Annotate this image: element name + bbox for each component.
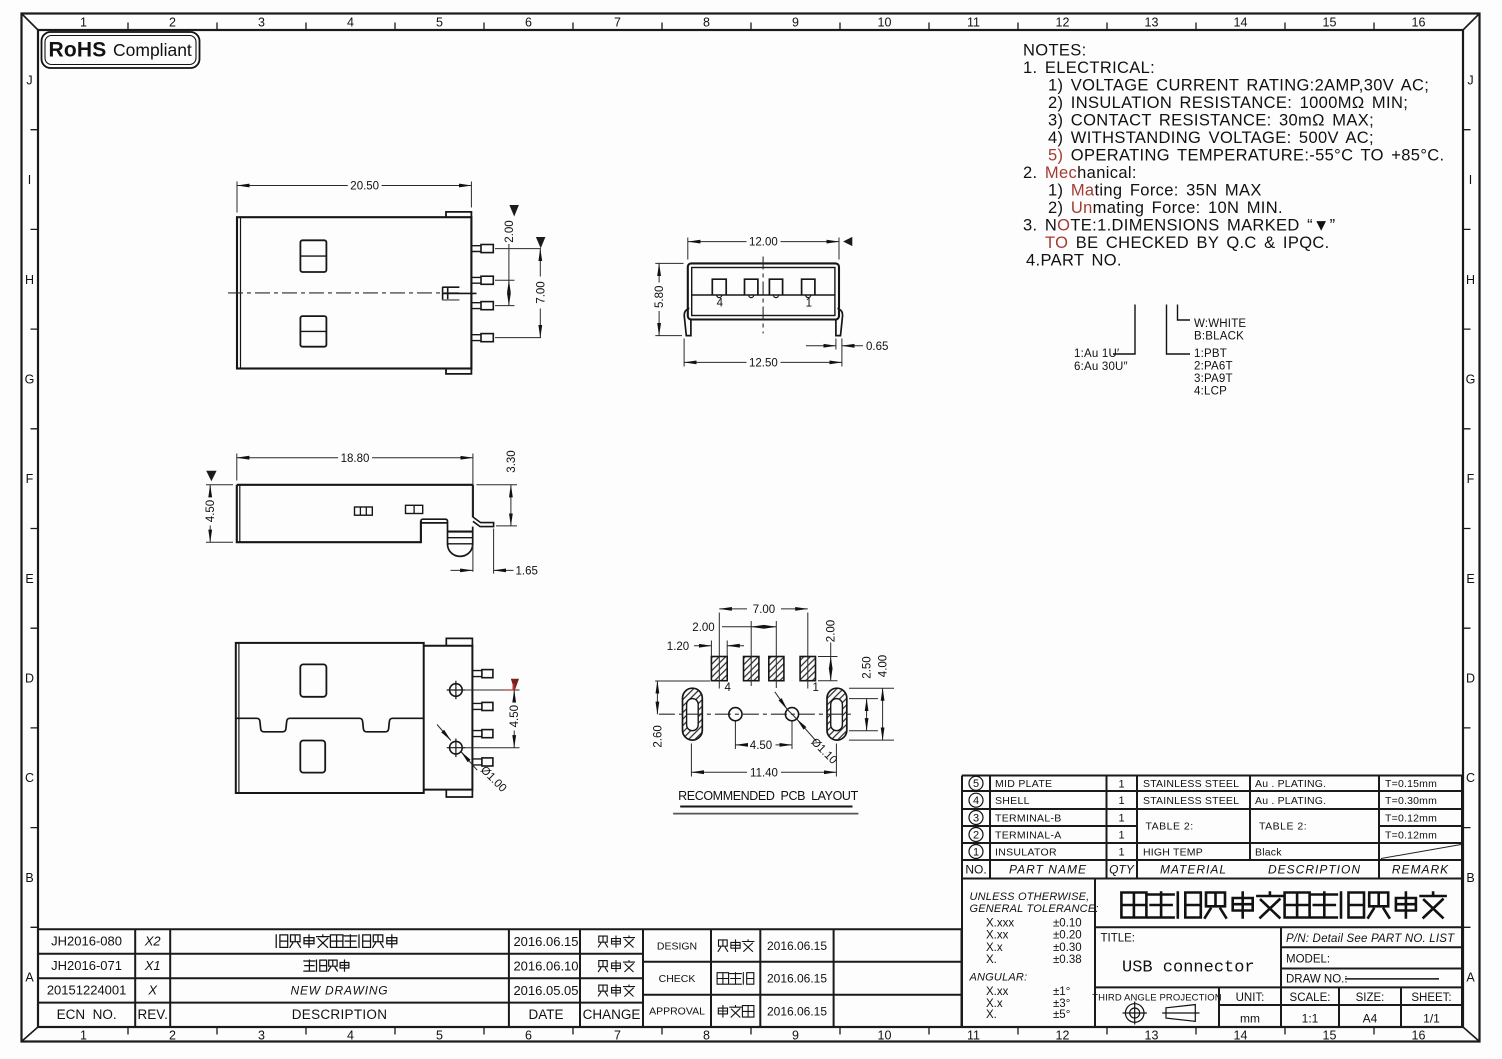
part number option tree lines — [1113, 305, 1190, 355]
revision 1 description (Chinese) (CJK rendered as strokes) — [276, 935, 397, 948]
svg-text:6: 6 — [525, 16, 532, 30]
svg-text:1.65: 1.65 — [516, 566, 538, 578]
svg-text:USB connector: USB connector — [1122, 959, 1255, 978]
svg-text:5.80: 5.80 — [654, 286, 666, 308]
svg-text:JH2016-071: JH2016-071 — [51, 958, 122, 973]
svg-text:4.50: 4.50 — [205, 500, 217, 522]
svg-text:2: 2 — [973, 829, 979, 841]
svg-text:1) Mating Force: 35N MAX: 1) Mating Force: 35N MAX — [1048, 182, 1262, 200]
front view: contact 3 — [769, 279, 782, 295]
svg-text:0.65: 0.65 — [866, 341, 888, 353]
dimension 20.50 extension lines — [237, 182, 471, 213]
dimension 4.00 (oval height) — [849, 688, 894, 740]
svg-text:TO BE CHECKED BY Q.C & IPQC.: TO BE CHECKED BY Q.C & IPQC. — [1045, 234, 1330, 252]
svg-text:8: 8 — [703, 1029, 710, 1043]
top view: bottom-right board lock tab — [446, 369, 471, 374]
svg-text:2.50: 2.50 — [862, 656, 874, 678]
front view: contact 1 — [712, 279, 726, 295]
inspection mark triangle (4.50) — [206, 471, 216, 481]
svg-text:DRAW NO.:: DRAW NO.: — [1286, 974, 1348, 986]
svg-text:6:Au 30U″: 6:Au 30U″ — [1074, 361, 1128, 373]
change signature (Chinese) (CJK rendered as strokes) — [598, 985, 634, 996]
svg-text:B: B — [25, 871, 33, 885]
front view: tongue divider line — [692, 294, 835, 296]
dimension 2.00 (pad height, right) — [818, 657, 838, 681]
svg-text:4.50: 4.50 — [509, 705, 521, 727]
svg-text:UNLESS OTHERWISE,: UNLESS OTHERWISE, — [970, 891, 1090, 903]
revision table grid — [38, 929, 643, 1027]
svg-text:1: 1 — [1118, 778, 1124, 790]
pcb layout: left oval mounting hole — [683, 688, 703, 740]
svg-text:G: G — [1466, 373, 1476, 387]
pcb layout: solder pad 3 — [769, 657, 784, 681]
svg-text:1) VOLTAGE CURRENT RATING:2AMP: 1) VOLTAGE CURRENT RATING:2AMP,30V AC; — [1048, 77, 1429, 95]
svg-text:2. Mechanical:: 2. Mechanical: — [1023, 164, 1137, 182]
top view: upper contact window — [300, 240, 326, 272]
svg-text:8: 8 — [703, 16, 710, 30]
svg-text:1.20: 1.20 — [667, 641, 689, 653]
svg-text:2: 2 — [169, 16, 176, 30]
designer name (Chinese) (CJK rendered as strokes) — [718, 940, 754, 952]
dimension 18.80 — [237, 457, 338, 459]
svg-text:3: 3 — [973, 812, 979, 824]
svg-text:9: 9 — [792, 16, 799, 30]
dimension 2.50 (hole height) — [849, 699, 878, 731]
side view: bottom ledge (folded metal) — [421, 519, 448, 523]
top view pin extension lines — [495, 249, 541, 338]
svg-text:4: 4 — [973, 795, 979, 807]
svg-text:CHANGE: CHANGE — [583, 1007, 641, 1022]
svg-text:13: 13 — [1145, 1029, 1159, 1043]
dimension 12.50 — [684, 361, 746, 363]
parts row 1: INSULATOR — [969, 845, 983, 859]
svg-text:Compliant: Compliant — [113, 40, 192, 60]
change signature (Chinese) (CJK rendered as strokes) — [598, 936, 634, 947]
svg-text:1: 1 — [80, 1029, 87, 1043]
datum triangle at 12.00 — [843, 237, 852, 246]
svg-text:CHECK: CHECK — [659, 973, 696, 985]
svg-text:2.00: 2.00 — [826, 620, 838, 642]
svg-text:3: 3 — [258, 16, 265, 30]
svg-text:±0.20: ±0.20 — [1053, 930, 1082, 942]
dimension 11.40 extension lines — [691, 744, 836, 777]
parts row 4: SHELL — [969, 793, 983, 807]
svg-text:±0.10: ±0.10 — [1053, 918, 1082, 930]
border zone ticks left/right — [31, 130, 1471, 928]
dimension 2.60 — [655, 680, 710, 682]
svg-text:15: 15 — [1323, 16, 1337, 30]
svg-text:NEW DRAWING: NEW DRAWING — [291, 984, 389, 998]
svg-text:11.40: 11.40 — [750, 767, 778, 779]
svg-text:1: 1 — [1118, 813, 1124, 825]
company name Zhejiang Hongsui Precision Electronics Co. Ltd (CJK rendered as strokes) — [1121, 893, 1445, 918]
svg-text:6: 6 — [525, 1029, 532, 1043]
bottom view: terminal pin 3 — [472, 731, 482, 737]
approver name (Chinese) (CJK rendered as strokes) — [718, 1006, 754, 1018]
svg-text:5: 5 — [436, 16, 443, 30]
svg-text:SIZE:: SIZE: — [1356, 992, 1385, 1004]
leader line Ø1.00 — [437, 725, 451, 741]
svg-text:REV.: REV. — [138, 1007, 168, 1022]
svg-text:J: J — [1467, 73, 1473, 87]
top view: terminal pin 4 — [471, 335, 481, 341]
svg-text:X: X — [147, 983, 158, 998]
dimension 1.65 — [451, 569, 473, 571]
svg-text:2016.05.05: 2016.05.05 — [513, 983, 578, 998]
dimension 4.50 extension lines — [462, 690, 519, 748]
svg-text:2:PA6T: 2:PA6T — [1194, 361, 1233, 373]
pcb layout: solder pad 4 — [711, 657, 727, 681]
pcb layout: solder pad 2 — [744, 657, 759, 681]
svg-text:2016.06.15: 2016.06.15 — [767, 1005, 827, 1019]
svg-text:APPROVAL: APPROVAL — [649, 1006, 705, 1018]
dimension 4.50 — [735, 744, 747, 746]
svg-text:3: 3 — [258, 1029, 265, 1043]
svg-text:3) CONTACT RESISTANCE: 30mΩ MA: 3) CONTACT RESISTANCE: 30mΩ MAX; — [1048, 112, 1374, 130]
red inspection arrow mark — [504, 689, 513, 691]
svg-text:STAINLESS STEEL: STAINLESS STEEL — [1143, 778, 1239, 790]
top view: top-right board lock tab — [446, 212, 471, 217]
svg-text:T=0.12mm: T=0.12mm — [1385, 829, 1437, 841]
title block grid — [1095, 879, 1462, 1028]
bottom view: top lock tab — [446, 638, 472, 645]
svg-text:STAINLESS STEEL: STAINLESS STEEL — [1143, 795, 1239, 807]
parts table header row — [965, 863, 1449, 877]
leader Ø1.10 — [775, 692, 788, 710]
side view: window detail 2 — [406, 505, 423, 513]
svg-text:X1: X1 — [144, 958, 161, 973]
svg-text:4.50: 4.50 — [750, 740, 772, 752]
svg-text:2.00: 2.00 — [692, 622, 714, 634]
svg-text:QTY: QTY — [1109, 863, 1135, 877]
top view: center line — [228, 292, 462, 294]
pcb layout: small hole right — [785, 708, 798, 721]
svg-text:16: 16 — [1412, 16, 1426, 30]
bottom view: bottom lock tab — [446, 790, 472, 797]
svg-text:JH2016-080: JH2016-080 — [51, 934, 122, 949]
bottom view: terminal pin 1 — [472, 671, 482, 677]
svg-text:DESCRIPTION: DESCRIPTION — [292, 1007, 388, 1022]
svg-text:11: 11 — [967, 1029, 980, 1043]
svg-text:2.60: 2.60 — [652, 725, 664, 747]
svg-text:20151224001: 20151224001 — [47, 983, 127, 998]
svg-text:mm: mm — [1240, 1012, 1260, 1026]
svg-text:W:WHITE: W:WHITE — [1194, 318, 1246, 330]
top view: terminal pin 1 — [471, 246, 481, 252]
svg-text:P/N: Detail See PART NO. LIST: P/N: Detail See PART NO. LIST — [1286, 933, 1455, 945]
svg-text:4) WITHSTANDING VOLTAGE: 500V: 4) WITHSTANDING VOLTAGE: 500V AC; — [1048, 129, 1374, 147]
tolerance notes — [969, 891, 1099, 983]
svg-text:ANGULAR:: ANGULAR: — [969, 971, 1028, 983]
svg-text:T=0.15mm: T=0.15mm — [1385, 778, 1437, 790]
parts row 2: TERMINAL-A — [969, 828, 983, 842]
border zone ticks top/bottom — [128, 23, 1374, 1035]
side view: window detail 1 — [355, 507, 373, 515]
svg-text:X.xx: X.xx — [986, 930, 1009, 942]
dimension 4.50 extension lines — [735, 722, 792, 750]
pcb layout: small hole left — [729, 708, 742, 721]
svg-text:MID PLATE: MID PLATE — [995, 778, 1052, 790]
border zone numbers bottom — [80, 1029, 1425, 1043]
svg-text:C: C — [25, 771, 34, 785]
svg-text:4: 4 — [347, 1029, 354, 1043]
svg-text:2: 2 — [169, 1029, 176, 1043]
svg-text:1: 1 — [813, 682, 819, 694]
svg-text:2016.06.15: 2016.06.15 — [767, 939, 827, 953]
svg-text:E: E — [25, 572, 33, 586]
svg-text:2016.06.15: 2016.06.15 — [513, 934, 578, 949]
svg-text:18.80: 18.80 — [341, 453, 370, 465]
dimension 12.00 extension lines — [688, 238, 839, 260]
svg-text:3. NOTE:1.DIMENSIONS MARKED “▼: 3. NOTE:1.DIMENSIONS MARKED “▼” — [1023, 217, 1335, 235]
svg-text:16: 16 — [1412, 1029, 1426, 1043]
revision 2 description (Chinese) (CJK rendered as strokes) — [304, 960, 349, 971]
side view: body outline — [237, 485, 473, 542]
pcb layout: pad 1 center line — [807, 613, 809, 689]
svg-text:TERMINAL-B: TERMINAL-B — [995, 812, 1062, 824]
projection symbol: target circle — [1125, 1004, 1144, 1023]
parts row 5: MID PLATE — [969, 776, 983, 790]
svg-text:±5°: ±5° — [1053, 1009, 1070, 1021]
checker name (Chinese) (CJK rendered as strokes) — [717, 973, 754, 985]
dimension 7.00 — [719, 608, 747, 610]
svg-text:Au . PLATING.: Au . PLATING. — [1255, 795, 1326, 807]
svg-text:C: C — [1466, 771, 1475, 785]
svg-text:1/1: 1/1 — [1423, 1012, 1440, 1026]
side view: left edge double line — [239, 485, 241, 542]
dimension 4.50 extension lines — [206, 485, 233, 542]
svg-text:T=0.12mm: T=0.12mm — [1385, 812, 1437, 824]
svg-text:Black: Black — [1255, 846, 1282, 858]
pcb layout: horizontal center line — [659, 713, 854, 715]
bottom view: lower rivet hole symbol — [450, 741, 463, 754]
svg-text:B:BLACK: B:BLACK — [1194, 331, 1244, 343]
svg-text:DESCRIPTION: DESCRIPTION — [1268, 863, 1361, 877]
svg-text:5) OPERATING TEMPERATURE:-55°C: 5) OPERATING TEMPERATURE:-55°C TO +85°C. — [1048, 147, 1444, 165]
top view: shell body outline — [237, 217, 471, 368]
svg-text:4: 4 — [717, 298, 724, 310]
svg-text:±0.30: ±0.30 — [1053, 942, 1082, 954]
dimension 3.30 extension lines — [477, 485, 518, 526]
pcb layout: pad 2 center line — [775, 621, 777, 688]
change signature (Chinese) (CJK rendered as strokes) — [598, 961, 634, 972]
svg-text:±0.38: ±0.38 — [1053, 954, 1082, 966]
svg-text:7.00: 7.00 — [535, 281, 547, 303]
svg-text:TABLE 2:: TABLE 2: — [1146, 821, 1194, 833]
bottom view: upper window — [300, 664, 326, 696]
unit/scale/size/sheet cells — [1236, 992, 1452, 1004]
border zone letters left — [25, 73, 35, 984]
svg-text:NO.: NO. — [965, 863, 986, 877]
pcb layout: solder pad 1 — [800, 657, 815, 681]
svg-text:D: D — [25, 672, 34, 686]
svg-text:TERMINAL-A: TERMINAL-A — [995, 829, 1062, 841]
svg-text:2016.06.10: 2016.06.10 — [513, 958, 578, 973]
front view: shell inner outline — [692, 268, 835, 316]
svg-text:1:Au 1U′: 1:Au 1U′ — [1074, 348, 1119, 360]
front view: vertical center line — [762, 257, 764, 334]
svg-text:4:LCP: 4:LCP — [1194, 386, 1227, 398]
svg-text:13: 13 — [1145, 16, 1159, 30]
svg-text:2) Unmating Force: 10N MIN.: 2) Unmating Force: 10N MIN. — [1048, 199, 1283, 217]
parts list table grid — [962, 776, 1462, 1028]
svg-text:HIGH TEMP: HIGH TEMP — [1143, 846, 1203, 858]
svg-text:X.: X. — [986, 954, 997, 966]
bottom view: left edge double line — [238, 643, 240, 793]
top view: left edge double line — [240, 217, 242, 368]
svg-text:4.PART NO.: 4.PART NO. — [1026, 252, 1122, 270]
side view: bent lance hook — [473, 517, 494, 527]
svg-text:E: E — [1466, 572, 1474, 586]
inspection mark triangle (7.00) — [536, 237, 546, 248]
svg-text:SCALE:: SCALE: — [1290, 992, 1331, 1004]
svg-text:TITLE:: TITLE: — [1101, 933, 1136, 945]
svg-text:RoHS: RoHS — [49, 39, 107, 62]
svg-text:MODEL:: MODEL: — [1286, 954, 1330, 966]
svg-text:T=0.30mm: T=0.30mm — [1385, 795, 1437, 807]
bottom view: upper rivet hole symbol — [450, 684, 463, 697]
bottom view: stepped divider line — [236, 718, 424, 732]
svg-text:4: 4 — [347, 16, 354, 30]
svg-text:12.00: 12.00 — [749, 237, 778, 249]
svg-text:15: 15 — [1323, 1029, 1337, 1043]
svg-text:A4: A4 — [1363, 1012, 1378, 1026]
svg-text:5: 5 — [436, 1029, 443, 1043]
svg-text:REMARK: REMARK — [1392, 863, 1449, 877]
svg-text:7: 7 — [614, 16, 621, 30]
svg-text:10: 10 — [878, 16, 892, 30]
svg-text:H: H — [25, 273, 34, 287]
svg-text:14: 14 — [1234, 1029, 1248, 1043]
part number option labels — [1074, 318, 1246, 398]
svg-text:12: 12 — [1056, 16, 1070, 30]
svg-text:X.x: X.x — [986, 942, 1003, 954]
svg-text:4.00: 4.00 — [878, 655, 890, 677]
svg-text:J: J — [26, 73, 32, 87]
svg-text:UNIT:: UNIT: — [1236, 992, 1265, 1004]
front view: contact 4 — [802, 279, 815, 295]
RoHS Compliant logo box — [42, 32, 200, 68]
svg-text:1. ELECTRICAL:: 1. ELECTRICAL: — [1023, 59, 1155, 77]
svg-text:X.xx: X.xx — [986, 986, 1009, 998]
bottom view: plug section outline — [424, 646, 473, 790]
svg-text:11: 11 — [967, 16, 980, 30]
svg-text:3.30: 3.30 — [506, 450, 518, 472]
svg-text:RECOMMENDED PCB LAYOUT: RECOMMENDED PCB LAYOUT — [678, 789, 858, 803]
svg-text:X.xxx: X.xxx — [986, 918, 1014, 930]
dimension 3.30 — [510, 485, 512, 526]
svg-text:SHELL: SHELL — [995, 795, 1030, 807]
svg-text:D: D — [1466, 672, 1475, 686]
svg-text:A: A — [1466, 971, 1475, 985]
dimension 4.50 (vertical) — [513, 690, 515, 702]
svg-text:1:1: 1:1 — [1302, 1012, 1319, 1026]
svg-text:X.: X. — [986, 1009, 997, 1021]
svg-text:1: 1 — [1118, 795, 1124, 807]
dimension 0.65 — [835, 339, 837, 350]
svg-text:H: H — [1466, 273, 1475, 287]
svg-text:GENERAL TOLERANCE:: GENERAL TOLERANCE: — [970, 903, 1099, 915]
bottom view: lower window — [300, 741, 325, 773]
svg-text:±1°: ±1° — [1053, 986, 1070, 998]
svg-text:X2: X2 — [144, 934, 162, 949]
svg-text:1: 1 — [806, 298, 812, 310]
svg-text:A: A — [25, 971, 34, 985]
svg-text:1:PBT: 1:PBT — [1194, 348, 1227, 360]
front view: right solder leg — [836, 308, 843, 335]
svg-text:4: 4 — [725, 682, 732, 694]
svg-text:MATERIAL: MATERIAL — [1160, 863, 1227, 877]
side view: crimp pin barrel — [448, 522, 473, 545]
svg-text:1: 1 — [1118, 847, 1124, 859]
svg-text:TABLE 2:: TABLE 2: — [1259, 821, 1307, 833]
svg-text:G: G — [25, 373, 35, 387]
remark diagonal (insulator row) — [1381, 845, 1461, 859]
bottom view: main body outline — [236, 643, 424, 793]
dimension 12.00 — [688, 241, 747, 243]
dimension 12.50 extension lines — [684, 339, 842, 367]
svg-text:12: 12 — [1056, 1029, 1070, 1043]
dimension 18.80 extension lines — [237, 454, 473, 517]
front view: left solder leg — [684, 308, 691, 335]
side view: crimp serration lines — [448, 531, 473, 533]
svg-text:DESIGN: DESIGN — [657, 940, 697, 952]
svg-text:THIRD ANGLE PROJECTION: THIRD ANGLE PROJECTION — [1092, 993, 1221, 1004]
top view: retention spring detail — [443, 287, 477, 301]
pcb layout: pad 3 center line — [750, 621, 752, 686]
svg-text:2) INSULATION RESISTANCE: 1000: 2) INSULATION RESISTANCE: 1000MΩ MIN; — [1048, 94, 1408, 112]
svg-text:1: 1 — [80, 16, 87, 30]
svg-text:2016.06.15: 2016.06.15 — [767, 972, 827, 986]
svg-text:7.00: 7.00 — [753, 604, 775, 616]
dimension 20.50 — [237, 185, 348, 187]
inspection mark triangle (2.00) — [509, 205, 519, 217]
border zone numbers top — [80, 16, 1425, 30]
svg-text:10: 10 — [878, 1029, 892, 1043]
svg-text:1: 1 — [973, 846, 979, 858]
dimension 11.40 — [691, 771, 747, 773]
design/check/approval table grid — [643, 929, 962, 1027]
bottom view: terminal pin 4 — [472, 759, 482, 765]
border zone letters right — [1466, 73, 1476, 984]
svg-text:3:PA9T: 3:PA9T — [1194, 373, 1233, 385]
notes text block — [1023, 42, 1444, 270]
svg-text:I: I — [1469, 173, 1472, 187]
pcb layout: pad 4 center line — [718, 613, 720, 689]
projection symbol: cone — [1162, 1005, 1199, 1022]
svg-text:F: F — [26, 472, 34, 486]
front view: shell outer outline — [688, 263, 839, 319]
dimension 4.50 — [209, 485, 211, 497]
dimension 5.80 — [658, 263, 660, 282]
svg-text:2.00: 2.00 — [504, 220, 516, 242]
svg-text:20.50: 20.50 — [350, 181, 379, 193]
svg-text:B: B — [1466, 871, 1474, 885]
dimension 1.65 extension line — [473, 529, 494, 574]
svg-text:NOTES:: NOTES: — [1023, 42, 1087, 60]
svg-text:Au . PLATING.: Au . PLATING. — [1255, 778, 1326, 790]
svg-text:7: 7 — [614, 1029, 621, 1043]
top view: terminal pin 3 — [471, 303, 481, 309]
top view: terminal pin 2 — [471, 277, 481, 283]
svg-text:12.50: 12.50 — [749, 358, 778, 370]
svg-text:1: 1 — [1118, 830, 1124, 842]
svg-text:I: I — [28, 173, 31, 187]
svg-text:5: 5 — [973, 778, 979, 790]
svg-text:DATE: DATE — [528, 1007, 563, 1022]
svg-text:SHEET:: SHEET: — [1411, 992, 1451, 1004]
bottom view: terminal pin 2 — [472, 703, 482, 709]
